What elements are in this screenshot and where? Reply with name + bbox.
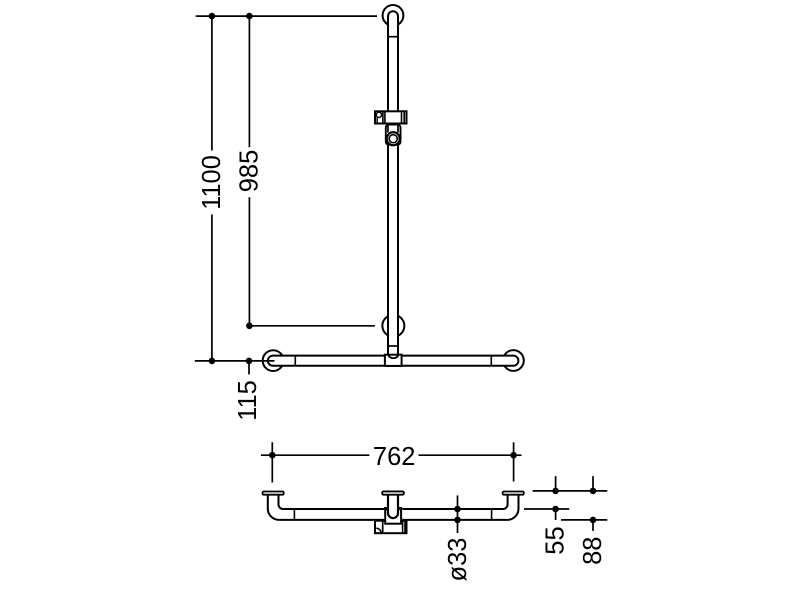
svg-text:1100: 1100 <box>198 155 226 210</box>
svg-text:88: 88 <box>579 537 607 565</box>
svg-text:985: 985 <box>235 150 263 193</box>
svg-text:55: 55 <box>541 526 569 554</box>
svg-text:115: 115 <box>234 380 262 421</box>
svg-text:762: 762 <box>373 443 416 471</box>
svg-text:ø33: ø33 <box>444 538 472 582</box>
